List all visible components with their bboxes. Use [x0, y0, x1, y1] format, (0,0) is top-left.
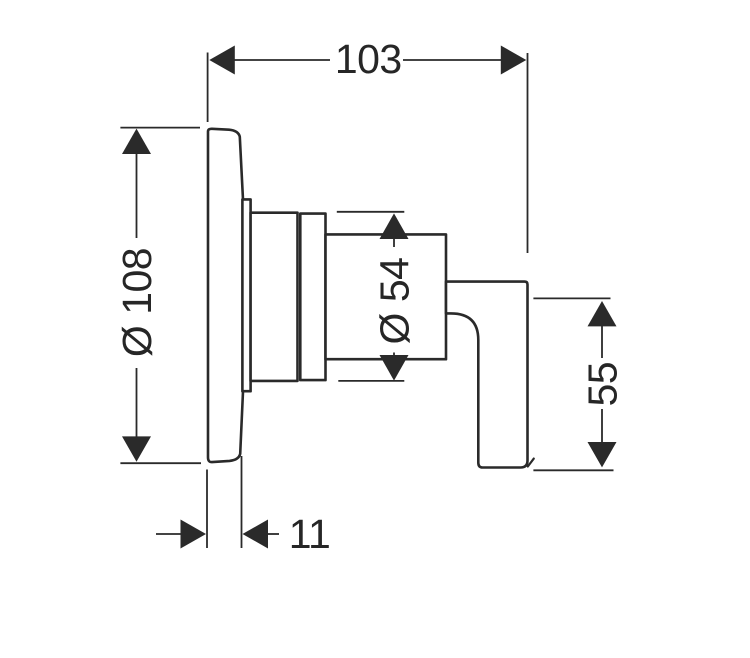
- dim 103 extension line left: [207, 53, 209, 123]
- sleeve cylinder: [251, 213, 298, 381]
- arrow 108 up: [122, 129, 151, 154]
- arrow 103 left: [209, 46, 235, 75]
- dim 11 tail left: [156, 533, 182, 535]
- dim 108 line upper: [136, 153, 138, 239]
- dim 55 extension bottom: [533, 469, 613, 471]
- dim 54 line lower: [393, 353, 395, 357]
- dim 11 extension right: [241, 456, 243, 548]
- arrow 54 down: [380, 355, 409, 381]
- escutcheon plate: [208, 129, 243, 462]
- arrow 55 down: [588, 442, 617, 467]
- flange ring: [242, 199, 250, 391]
- dim 55 extension top (centerline): [533, 297, 610, 299]
- dim 108 extension bottom: [120, 462, 201, 464]
- arrow 55 up: [588, 301, 617, 326]
- arrowheads: [122, 46, 617, 549]
- arrow 108 down: [122, 436, 151, 461]
- dim 11 extension left: [206, 470, 208, 549]
- handle lever: [446, 282, 528, 468]
- dim 54 line upper: [393, 238, 395, 247]
- dim 11 tail right: [266, 533, 279, 535]
- svg-text:103: 103: [335, 36, 402, 82]
- svg-text:Ø 108: Ø 108: [114, 248, 160, 357]
- fixture outline group: [208, 129, 534, 468]
- dim 55 line upper: [601, 326, 603, 358]
- arrow 54 up: [380, 213, 409, 239]
- dim 103 extension line right: [527, 53, 529, 253]
- svg-text:Ø 54: Ø 54: [372, 258, 418, 345]
- barrel: [326, 234, 447, 359]
- svg-text:11: 11: [289, 511, 331, 557]
- arrow 11 left-pointing: [243, 520, 269, 549]
- dim 55 line lower: [601, 409, 603, 442]
- dim 54 extension top: [337, 211, 405, 213]
- handle tip flick: [528, 459, 534, 467]
- cap cylinder: [300, 214, 325, 381]
- dim 103 line right segment: [403, 59, 503, 61]
- dim 103 line left segment: [233, 59, 330, 61]
- dim 108 line lower: [136, 368, 138, 437]
- arrow 103 right: [501, 46, 527, 75]
- dim 54 extension bottom: [338, 380, 404, 382]
- dim 108 extension top: [120, 127, 200, 129]
- dimensions group: [120, 53, 613, 549]
- svg-text:55: 55: [580, 362, 626, 407]
- arrow 11 right-pointing: [181, 520, 207, 549]
